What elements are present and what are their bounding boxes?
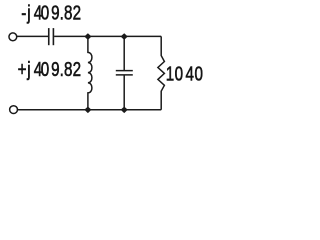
capacitor C2 (shunt): bottom lead wire <box>123 75 125 110</box>
inductor L1 (+j 409.82), shunt branch with leads and 4 coil bumps <box>88 36 92 109</box>
svg-text:1040: 1040 <box>166 63 203 86</box>
capacitor C2 (shunt): top plate <box>116 70 133 72</box>
junction dot: top of inductor L1 <box>84 33 91 40</box>
junction dot: bottom of shunt capacitor C2 <box>121 107 128 114</box>
capacitor C1 (series): right plate <box>52 28 54 45</box>
node: bottom-left input terminal (open circle) <box>10 106 18 114</box>
node: top-left input terminal (open circle) <box>9 33 17 41</box>
wire: top rail, capacitor C1 to resistor corner <box>54 35 161 37</box>
capacitor C1 (series, -j 409.82): left plate <box>48 28 50 45</box>
resistor R1 (1040), shunt branch with zigzag and leads <box>158 36 165 109</box>
junction dot: top of shunt capacitor C2 <box>121 33 128 40</box>
wire: bottom rail, terminal to resistor corner <box>18 109 162 111</box>
capacitor C2 (shunt): bottom plate <box>116 74 133 76</box>
capacitor C2 (shunt): top lead wire <box>123 36 125 70</box>
svg-text:-j409.82: -j409.82 <box>21 1 81 24</box>
junction dot: bottom of inductor L1 <box>84 107 91 114</box>
svg-text:+j409.82: +j409.82 <box>18 58 81 81</box>
wire: top rail, terminal to capacitor C1 <box>17 35 48 37</box>
